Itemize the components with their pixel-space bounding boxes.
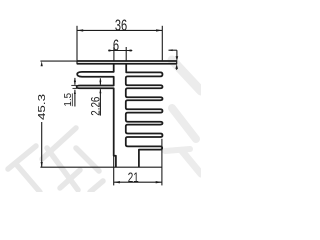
- svg-text:2.26: 2.26: [90, 97, 102, 116]
- dimension 1: vertical down leader with down arrow at plate top: [176, 50, 178, 57]
- watermark stroke bottom-left X part1: [8, 146, 36, 169]
- dimension 21: left arrow: [114, 181, 120, 183]
- svg-text:45.3: 45.3: [37, 93, 48, 120]
- dimension 45.3: lower line segment: [41, 122, 43, 167]
- dimension 45.3: top extension line (to plate top-left corner): [40, 60, 76, 62]
- top plate bottom edge: [77, 63, 177, 65]
- dimension 36: line: [77, 29, 162, 31]
- dimension 21: right extension line (through fin caps): [161, 139, 163, 186]
- dimension 6: left extension line: [113, 47, 115, 61]
- dimension 6: right extension line: [125, 47, 127, 61]
- dimension 1.5: upper arrow pair on line x=74.9: [74, 78, 76, 82]
- right serpentine comb: spine right face, 7 fins with rounded tips, slots: [126, 64, 163, 168]
- watermark stroke bottom-left X part2: [16, 164, 40, 192]
- dimension 21: line: [114, 181, 162, 183]
- dimension 45.3: top arrow (pointing up): [41, 61, 43, 66]
- dimension 1.5: lower up-arrow and shaft beside text: [74, 90, 76, 94]
- watermark stroke mid slash: [42, 128, 76, 159]
- dimension 36: left arrow: [77, 29, 83, 31]
- dimension 6: right arrow (pointing left): [126, 49, 131, 51]
- dimension 36: left extension line: [76, 26, 78, 61]
- svg-text:21: 21: [128, 169, 139, 185]
- dimension 6: line with outside tails: [108, 50, 132, 52]
- watermark band right-mid: [172, 108, 196, 139]
- dimension 36: right arrow: [156, 29, 162, 31]
- top plate left end cap: [76, 60, 78, 64]
- dimension 6: left arrow (pointing right): [109, 49, 114, 51]
- watermark band top-right: [172, 60, 201, 91]
- dimension 45.3: bottom arrow (pointing down): [41, 162, 43, 167]
- dimension 1: up arrow below plate: [175, 64, 178, 69]
- dimension 21: left extension line (below foot): [113, 156, 115, 185]
- top plate top edge: [77, 60, 177, 62]
- left spine face with two left fins and bottom notch: [77, 64, 116, 168]
- dimension 1 (plate thickness, top right): horizontal leader with left arrow: [169, 49, 177, 51]
- watermark stroke center-bottom slash: [60, 170, 80, 188]
- watermark stroke mid backslash: [47, 148, 78, 190]
- top plate right end cap: [176, 60, 178, 64]
- dimension 1.5 extension lines from left fin2 edges: [71, 84, 77, 86]
- watermark stroke center-bottom2: [90, 181, 103, 192]
- watermark stroke center backslash: [76, 148, 99, 171]
- watermark band bottom-right bar: [165, 149, 190, 151]
- svg-text:6: 6: [113, 37, 119, 54]
- dimension 2.26: lower up-arrow and shaft: [99, 89, 101, 93]
- dimension 36: right extension line: [161, 26, 163, 61]
- dimension 2.26: upper shaft and down-arrow: [99, 78, 101, 84]
- bottom foot bottom edge (also 45.3 bottom extension line): [40, 166, 161, 168]
- dimension 21: right arrow: [156, 181, 162, 183]
- svg-text:36: 36: [115, 18, 127, 35]
- watermark band bottom-right diagonal: [182, 151, 201, 174]
